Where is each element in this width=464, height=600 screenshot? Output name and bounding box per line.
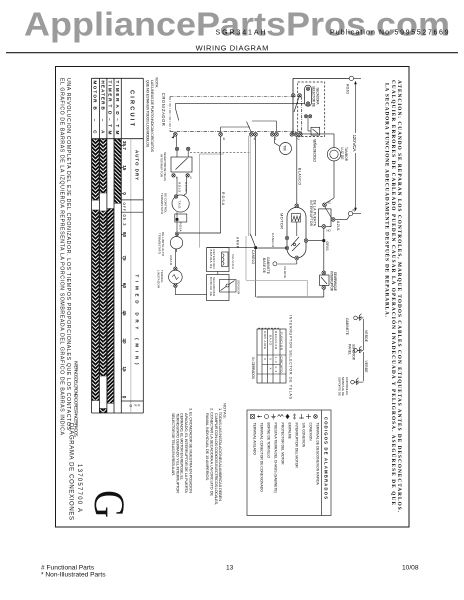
svg-text:ROSA: ROSA: [179, 223, 183, 232]
svg-text:AMAR: AMAR: [236, 237, 240, 249]
svg-text:BOBINA DE: BOBINA DE: [209, 277, 213, 296]
svg-text:CONTROLES: CONTROLES: [345, 377, 349, 395]
svg-text:TERMOSTATO: TERMOSTATO: [160, 193, 164, 215]
svg-text:TD–TM: TD–TM: [108, 105, 113, 135]
svg-text:CANELO: CANELO: [251, 250, 255, 265]
svg-text:DE LIMITE ALTO: DE LIMITE ALTO: [161, 232, 165, 257]
svg-text:SELECTOR DE TELAS: SELECTOR DE TELAS: [163, 152, 167, 181]
svg-text:AZUL: AZUL: [336, 221, 340, 231]
svg-text:BAJO: BAJO: [269, 335, 273, 346]
svg-text:MOTOR: MOTOR: [280, 213, 285, 229]
svg-text:X= CERRADOS: X= CERRADOS: [251, 357, 255, 379]
svg-text:CUALQUIER ERRORES DE CABLEADO: CUALQUIER ERRORES DE CABLEADO PUEDEN CAU…: [390, 80, 398, 505]
svg-text:EL GRAFICO DE BARRAS DE LA IZQ: EL GRAFICO DE BARRAS DE LA IZQUIERDA REP…: [58, 78, 64, 436]
svg-text:AUTO DRY: AUTO DRY: [134, 150, 139, 180]
svg-text:SELECTOR DE TELAS EN REGULAR.: SELECTOR DE TELAS EN REGULAR.: [171, 413, 176, 476]
svg-text:ATENCION: CUANDO SE REPARAN: ATENCION: CUANDO SE REPARAN LOS CONTROLE…: [396, 80, 402, 513]
svg-text:GABINETE: GABINETE: [345, 318, 349, 336]
svg-text:DE LA PUERTA: DE LA PUERTA: [313, 200, 317, 227]
svg-text:INTERRUPTOR: INTERRUPTOR: [159, 154, 163, 178]
svg-text:DIAGRAMA DE CONEXIONES: DIAGRAMA DE CONEXIONES: [68, 423, 74, 520]
svg-text:* Non-Illustrated Parts: * Non-Illustrated Parts: [41, 572, 106, 579]
svg-text:TIMED DRY (MIN): TIMED DRY (MIN): [134, 275, 139, 366]
svg-text:LUZ DE: LUZ DE: [340, 148, 344, 160]
svg-text:ROJO: ROJO: [346, 84, 350, 94]
svg-text:4-3: 4-3: [274, 366, 278, 372]
svg-text:CODIGOS DE ALAMBRADOS: CODIGOS DE ALAMBRADOS: [323, 417, 328, 499]
svg-text:BORNE DE TORNILLO: BORNE DE TORNILLO: [267, 423, 271, 459]
svg-text:SOPORTE DE: SOPORTE DE: [337, 377, 341, 396]
svg-text:05.3: 05.3: [122, 215, 127, 227]
svg-text:VERDE: VERDE: [283, 266, 287, 278]
svg-text:GRIS: GRIS: [325, 242, 329, 252]
svg-text:ROSA: ROSA: [221, 192, 225, 206]
svg-text:RAMAL INDIVIDUAL DE 15 AMPERIO: RAMAL INDIVIDUAL DE 15 AMPERIOS.: [205, 413, 210, 481]
svg-text:10/08: 10/08: [402, 565, 419, 572]
svg-text:6: 6: [223, 137, 225, 141]
svg-text:G: G: [85, 490, 133, 518]
svg-text:O: O: [129, 405, 133, 408]
svg-text:RETENCION: RETENCION: [212, 250, 216, 269]
svg-text:SECADORA: SECADORA: [315, 88, 319, 106]
svg-text:LA SECADORA FUNCIONE ADECUADAM: LA SECADORA FUNCIONE ADECUADAMENTE DESPU…: [384, 83, 392, 318]
svg-text:CONEXION: CONEXION: [309, 423, 313, 442]
svg-text:REGULAR: REGULAR: [274, 331, 278, 350]
svg-text:CON AIRE: CON AIRE: [263, 331, 267, 349]
svg-text:X: X: [269, 368, 273, 370]
svg-text:TM: TM: [282, 145, 286, 150]
svg-text:TERMINAL CONECTOR DE CONEXIONA: TERMINAL CONECTOR DE CONEXIONADO: [260, 423, 264, 493]
svg-text:PUESTA A TIERRA DEL CHASIS (GA: PUESTA A TIERRA DEL CHASIS (GABINETE): [274, 423, 278, 493]
svg-text:AD–TM: AD–TM: [115, 105, 120, 135]
svg-text:137057700 A: 137057700 A: [76, 464, 82, 512]
svg-text:NC: NC: [327, 201, 331, 205]
svg-text:Publication No: Publication No: [330, 30, 389, 37]
svg-text:INTERRUPTOR DEL MOTOR: INTERRUPTOR DEL MOTOR: [295, 423, 299, 469]
svg-text:SELECTOR DE: SELECTOR DE: [312, 86, 316, 107]
svg-text:5: 5: [190, 176, 192, 180]
svg-text:OFF: OFF: [122, 203, 126, 212]
svg-text:CRONIZADOR: CRONIZADOR: [161, 93, 166, 126]
svg-text:SIN CONEXION: SIN CONEXION: [302, 423, 306, 448]
svg-text:AMAR: AMAR: [169, 255, 173, 266]
svg-text:F: F: [133, 405, 137, 407]
svg-text:QUE NO ESTAN EN TODOS LOS MODE: QUE NO ESTAN EN TODOS LOS MODELOS.: [145, 80, 149, 148]
svg-text:TERMINAL DE DESCONEXION RAPIDA: TERMINAL DE DESCONEXION RAPIDA: [316, 423, 320, 486]
svg-text:VERDE: VERDE: [364, 361, 368, 374]
svg-text:B–A: B–A: [100, 107, 105, 135]
svg-text:TAMBOR: TAMBOR: [344, 147, 348, 162]
svg-text:UNA REVOLUCION COMPLETA DEL EJ: UNA REVOLUCION COMPLETA DEL EJE DEL CRON…: [65, 78, 71, 431]
svg-text:BLANCO: BLANCO: [297, 168, 301, 185]
svg-text:TERMOSTATO: TERMOSTATO: [157, 233, 161, 255]
svg-text:NO: NO: [327, 229, 332, 233]
svg-text:TERMAL: TERMAL: [160, 270, 164, 283]
svg-text:INTERRUPTOR SELECTOR DE TELAS: INTERRUPTOR SELECTOR DE TELAS: [289, 315, 293, 399]
svg-text:INTERRUPTOR: INTERRUPTOR: [309, 200, 313, 227]
svg-text:2: 2: [275, 137, 277, 141]
svg-text:TIMER: TIMER: [115, 81, 120, 103]
svg-text:DE CONTROL: DE CONTROL: [163, 193, 167, 213]
svg-text:CANELO: CANELO: [271, 233, 275, 248]
svg-text:VERDE: VERDE: [364, 330, 368, 343]
svg-text:F: F: [137, 405, 141, 407]
svg-text:MOTOR: MOTOR: [93, 81, 98, 104]
svg-text:INTERRUPTOR: INTERRUPTOR: [330, 271, 334, 292]
svg-text:NOTA:: NOTA:: [155, 78, 159, 89]
svg-text:EMPALME: EMPALME: [288, 423, 292, 440]
svg-text:WIRING DIAGRAM: WIRING DIAGRAM: [196, 43, 269, 52]
svg-text:SUPERIOR: SUPERIOR: [351, 344, 355, 361]
svg-text:HEATER: HEATER: [100, 81, 105, 106]
svg-text:ROJO: ROJO: [178, 182, 182, 193]
svg-text:SEGURIDAD: SEGURIDAD: [212, 277, 216, 296]
svg-text:# Functional Parts: # Functional Parts: [41, 565, 95, 572]
svg-text:PROTECTOR DEL MOTOR: PROTECTOR DEL MOTOR: [281, 423, 285, 466]
svg-text:C: C: [298, 137, 301, 141]
svg-text:120 VCA: 120 VCA: [351, 135, 357, 153]
svg-text:DE ARRANQUE: DE ARRANQUE: [333, 272, 337, 291]
svg-text:VALVULA: VALVULA: [231, 254, 235, 269]
svg-text:X: X: [263, 358, 267, 360]
svg-text:MONTAJE DE: MONTAJE DE: [341, 377, 345, 396]
svg-text:AppliancePartsPros.com: AppliancePartsPros.com: [24, 6, 450, 43]
svg-text:X: X: [269, 358, 273, 360]
svg-text:T.K.O.: T.K.O.: [178, 201, 182, 210]
svg-text:GABINETE: GABINETE: [266, 257, 270, 274]
svg-text:BASE DE: BASE DE: [262, 258, 266, 273]
svg-text:LAS LINEAS DE PUNTO INDICAN CI: LAS LINEAS DE PUNTO INDICAN CIRCUITOS: [150, 80, 154, 153]
svg-text:FUNCION: FUNCION: [280, 332, 284, 350]
svg-text:LIMITADOR: LIMITADOR: [156, 270, 160, 289]
svg-text:CIRCUIT: CIRCUIT: [128, 90, 134, 127]
svg-text:1-2: 1-2: [274, 357, 278, 363]
svg-text:13: 13: [226, 565, 234, 572]
svg-text:TIMER: TIMER: [108, 81, 113, 103]
svg-text:TERMINAL AISLADO: TERMINAL AISLADO: [253, 423, 257, 456]
svg-text:SENSOR: SENSOR: [236, 280, 240, 295]
svg-text:5995527669: 5995527669: [395, 30, 449, 37]
svg-text:PANEL: PANEL: [348, 344, 352, 355]
svg-text:AZUL: AZUL: [184, 182, 188, 192]
svg-text:BOBINA DE: BOBINA DE: [209, 250, 213, 269]
svg-text:CIRCUITO: CIRCUITO: [280, 357, 284, 374]
svg-text:B–C: B–C: [93, 107, 98, 135]
svg-text:SEÑAL DE CICLO: SEÑAL DE CICLO: [313, 139, 318, 162]
